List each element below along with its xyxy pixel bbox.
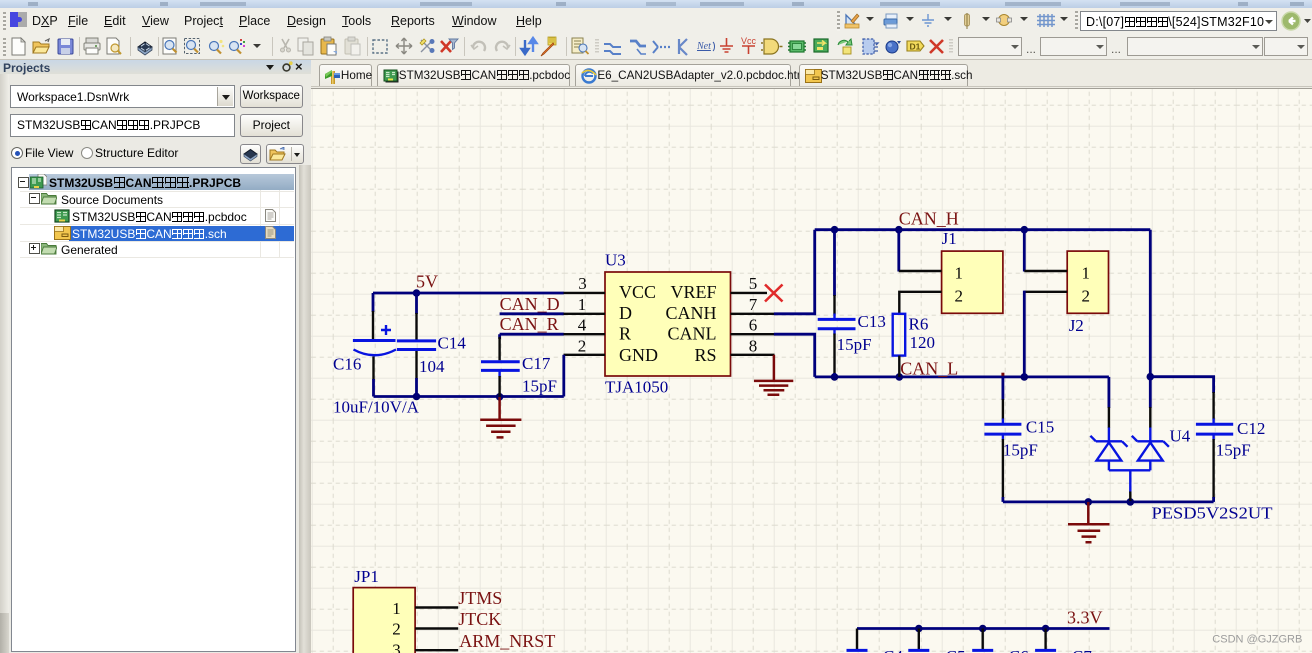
svg-text:2: 2 [578, 336, 587, 355]
svg-text:ARM_NRST: ARM_NRST [459, 631, 555, 651]
U3 pin 7 (CANH) [731, 295, 775, 314]
svg-text:8: 8 [749, 336, 758, 355]
svg-text:C4: C4 [883, 647, 903, 653]
label C17 value 15pF [522, 376, 557, 395]
resistor R6 [893, 314, 906, 377]
node: 3.3V junction b [979, 625, 987, 633]
svg-text:Vcc: Vcc [741, 36, 757, 46]
J1 pin 2 [899, 286, 963, 314]
svg-text:J2: J2 [1069, 316, 1084, 335]
label C17 designator [522, 354, 551, 373]
U3 pin names [619, 282, 717, 365]
wire: 5V to C16 [372, 293, 375, 312]
svg-text:JTCK: JTCK [458, 609, 501, 629]
wire: bottom GND rail left [374, 395, 564, 398]
svg-text:D1: D1 [910, 42, 921, 52]
left edge + splitter [0, 74, 9, 653]
capacitor C14 [397, 293, 436, 397]
wire: CAN_H rail [815, 228, 1151, 231]
net label ARM_NRST [459, 631, 555, 651]
node: CAN_L/C13 [831, 373, 839, 381]
row1 selected project [29, 174, 294, 190]
net label CAN_L [900, 358, 958, 378]
svg-text:15pF: 15pF [1003, 440, 1038, 459]
node: C17 bottom junction [496, 393, 504, 401]
svg-text:CANH: CANH [665, 303, 716, 323]
wire: CAN_H down right side [1149, 230, 1152, 377]
svg-text:C15: C15 [1026, 417, 1054, 436]
TVS diode array U4 (PESD5V2S2UT) [1090, 377, 1169, 501]
net label CAN_D [500, 294, 560, 314]
svg-text:C6: C6 [1009, 647, 1029, 653]
svg-text:C16: C16 [333, 355, 361, 374]
U3 pin 3 (VCC) [564, 274, 606, 293]
U3 pin 1 (D) [564, 295, 606, 314]
capacitor C13 [818, 230, 856, 377]
svg-text:3: 3 [578, 274, 587, 293]
U3 pin 8 (RS) [731, 336, 775, 355]
J1 pin 1 [899, 230, 963, 283]
svg-text:3.3V: 3.3V [1067, 607, 1103, 627]
svg-text:VCC: VCC [619, 282, 656, 302]
label R6 value 120 [910, 333, 936, 352]
svg-text:JTMS: JTMS [458, 588, 502, 608]
connector J2 designator [1069, 316, 1084, 335]
wire: CAN_L rail [815, 375, 1109, 378]
row3 [54, 209, 70, 223]
node: CAN_L/J2 [1021, 373, 1029, 381]
svg-text:4: 4 [578, 316, 587, 335]
label C16 value 10uF/10V/A [333, 398, 420, 417]
svg-text:VREF: VREF [670, 282, 716, 302]
net label CAN_H [899, 209, 959, 229]
svg-text:1: 1 [1082, 263, 1091, 282]
svg-text:CSDN @GJZGRB: CSDN @GJZGRB [1212, 633, 1302, 645]
capacitor C6 (partial at edge) [972, 629, 1028, 653]
svg-text:C5: C5 [946, 647, 966, 653]
label C12 designator [1237, 419, 1265, 438]
net label JTMS [458, 588, 502, 608]
node: CAN_H/C13 [831, 226, 839, 234]
JP1 pin 3 [392, 641, 458, 653]
JP1 pin 2 [392, 619, 458, 638]
IC U3 TJA1050 body [605, 272, 731, 376]
U3 pin 6 (CANL) [731, 316, 775, 335]
op-amp/IC U3 designator [605, 251, 626, 270]
watermark [1212, 633, 1302, 645]
svg-text:D: D [619, 303, 632, 323]
svg-text:R: R [619, 324, 631, 344]
label U4 comment PESD5V2S2UT [1152, 503, 1274, 522]
JP1 pin 1 [392, 599, 458, 618]
svg-text:1: 1 [392, 599, 401, 618]
svg-text:PESD5V2S2UT: PESD5V2S2UT [1152, 503, 1274, 522]
label C12 value 15pF [1216, 440, 1251, 459]
svg-text:C17: C17 [522, 354, 551, 373]
svg-text:120: 120 [910, 333, 936, 352]
capacitor C15 [984, 373, 1021, 502]
power port 3.3V label [1067, 607, 1103, 627]
U3 pin 2 (GND) [564, 336, 606, 355]
svg-text:7: 7 [749, 295, 758, 314]
U3 pin 5 (VREF) with no-connect [731, 274, 783, 302]
tree [11, 167, 296, 652]
capacitor C12 [1196, 392, 1233, 502]
wire: 5V horizontal rail [373, 292, 564, 295]
svg-text:1: 1 [578, 295, 587, 314]
radios [11, 147, 23, 159]
node: U4 center junction [1127, 498, 1135, 506]
svg-text:CAN_H: CAN_H [899, 209, 959, 229]
wire: CANH up to CAN_H rail [774, 230, 815, 314]
label R6 designator [909, 315, 929, 334]
capacitor C17 [481, 337, 520, 397]
connector J1 designator [942, 229, 957, 248]
node: 3.3V junction a [915, 625, 923, 633]
svg-text:CAN_D: CAN_D [500, 294, 560, 314]
svg-text:JP1: JP1 [354, 567, 379, 586]
svg-text:C12: C12 [1237, 419, 1265, 438]
capacitor C7 (partial at edge) [1035, 629, 1092, 653]
right utility icons row1 [837, 11, 840, 31]
connector JP1 designator [354, 567, 379, 586]
wire: to C12 [1150, 377, 1213, 393]
svg-text:15pF: 15pF [837, 335, 872, 354]
svg-text:5V: 5V [416, 272, 438, 292]
svg-text:GND: GND [619, 345, 658, 365]
wire: CAN_R with drop to C17 [500, 334, 564, 339]
row4 selected sch [69, 226, 295, 242]
wire: 3.3V rail [857, 627, 1110, 630]
svg-text:C7: C7 [1072, 647, 1092, 653]
wire: pin2 GND drop to rail [562, 355, 565, 397]
J2 pin 2 [1024, 286, 1090, 377]
row5 [29, 243, 40, 254]
node: ground junction [1085, 498, 1093, 506]
ground symbol bottom right [1068, 502, 1110, 542]
label U3 comment TJA1050 [605, 378, 668, 397]
J2 pin 1 [1024, 230, 1090, 283]
svg-text:C14: C14 [438, 334, 467, 353]
label C16 designator [333, 355, 361, 374]
node: CAN_H drop / C12 branch [1147, 373, 1155, 381]
label C15 value 15pF [1003, 440, 1038, 459]
svg-text:R6: R6 [909, 315, 929, 334]
row2 [29, 193, 40, 204]
capacitor C4 (partial at edge) [847, 629, 904, 653]
connector J2 body [1067, 251, 1108, 313]
svg-text:104: 104 [419, 357, 445, 376]
net label CAN_R [500, 314, 559, 334]
wire: bottom rail to C12 [1003, 500, 1214, 503]
capacitor C16 (electrolytic) [353, 311, 396, 397]
svg-text:J1: J1 [942, 229, 957, 248]
svg-text:5: 5 [749, 274, 758, 293]
connector J1 body [942, 251, 1003, 313]
svg-text:2: 2 [955, 286, 964, 305]
label C14 designator [438, 334, 467, 353]
node: CAN_H/J2 [1021, 226, 1029, 234]
label C13 designator [858, 312, 886, 331]
svg-text:U3: U3 [605, 251, 626, 270]
wire: CAN_D [500, 312, 564, 315]
svg-text:15pF: 15pF [1216, 440, 1251, 459]
ground symbol on RS pin [754, 355, 793, 395]
label U4 designator [1170, 427, 1191, 446]
label C14 value 104 [419, 357, 445, 376]
svg-text:1: 1 [955, 263, 964, 282]
node: C14 bottom junction [413, 393, 421, 401]
svg-text:10uF/10V/A: 10uF/10V/A [333, 398, 420, 417]
svg-text:Net: Net [696, 41, 711, 52]
net label JTCK [458, 609, 501, 629]
capacitor C5 (partial at edge) [908, 629, 965, 653]
svg-text:2: 2 [1082, 286, 1091, 305]
U3 pin 4 (R) [564, 316, 606, 335]
connector JP1 body [353, 588, 415, 653]
node: CAN_H/J1 [895, 226, 903, 234]
svg-text:RS: RS [694, 345, 716, 365]
svg-text:CAN_L: CAN_L [900, 358, 958, 378]
svg-text:3: 3 [392, 641, 401, 653]
svg-text:CAN_R: CAN_R [500, 314, 559, 334]
svg-text:TJA1050: TJA1050 [605, 378, 668, 397]
svg-text:U4: U4 [1170, 427, 1191, 446]
label C15 designator [1026, 417, 1054, 436]
node: 3.3V junction c [1042, 625, 1050, 633]
wire: CANL down to CAN_L rail [774, 334, 815, 377]
svg-text:CANL: CANL [668, 324, 717, 344]
power port 5V label [416, 272, 438, 292]
svg-text:C13: C13 [858, 312, 886, 331]
node: CAN_L/R6 [896, 373, 904, 381]
svg-text:15pF: 15pF [522, 376, 557, 395]
label C13 value 15pF [837, 335, 872, 354]
svg-text:6: 6 [749, 316, 758, 335]
ground symbol below C17 [480, 397, 521, 437]
svg-text:2: 2 [392, 619, 401, 638]
node: 5V junction [413, 289, 421, 297]
